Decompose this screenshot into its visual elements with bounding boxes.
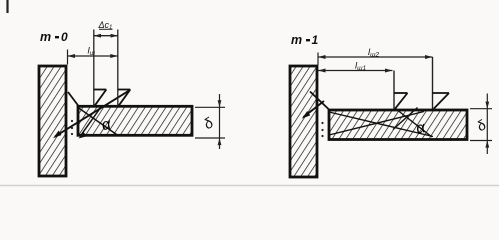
svg-text:0: 0 [61, 30, 68, 44]
svg-text:1: 1 [312, 33, 319, 47]
svg-text:δ: δ [201, 115, 217, 133]
svg-text:m: m [291, 33, 302, 47]
svg-text:lш1: lш1 [355, 61, 367, 73]
svg-text:Δc1: Δc1 [98, 20, 113, 31]
svg-text:lш2: lш2 [368, 47, 380, 59]
svg-text:m: m [40, 30, 51, 44]
svg-text:δ: δ [474, 117, 489, 135]
